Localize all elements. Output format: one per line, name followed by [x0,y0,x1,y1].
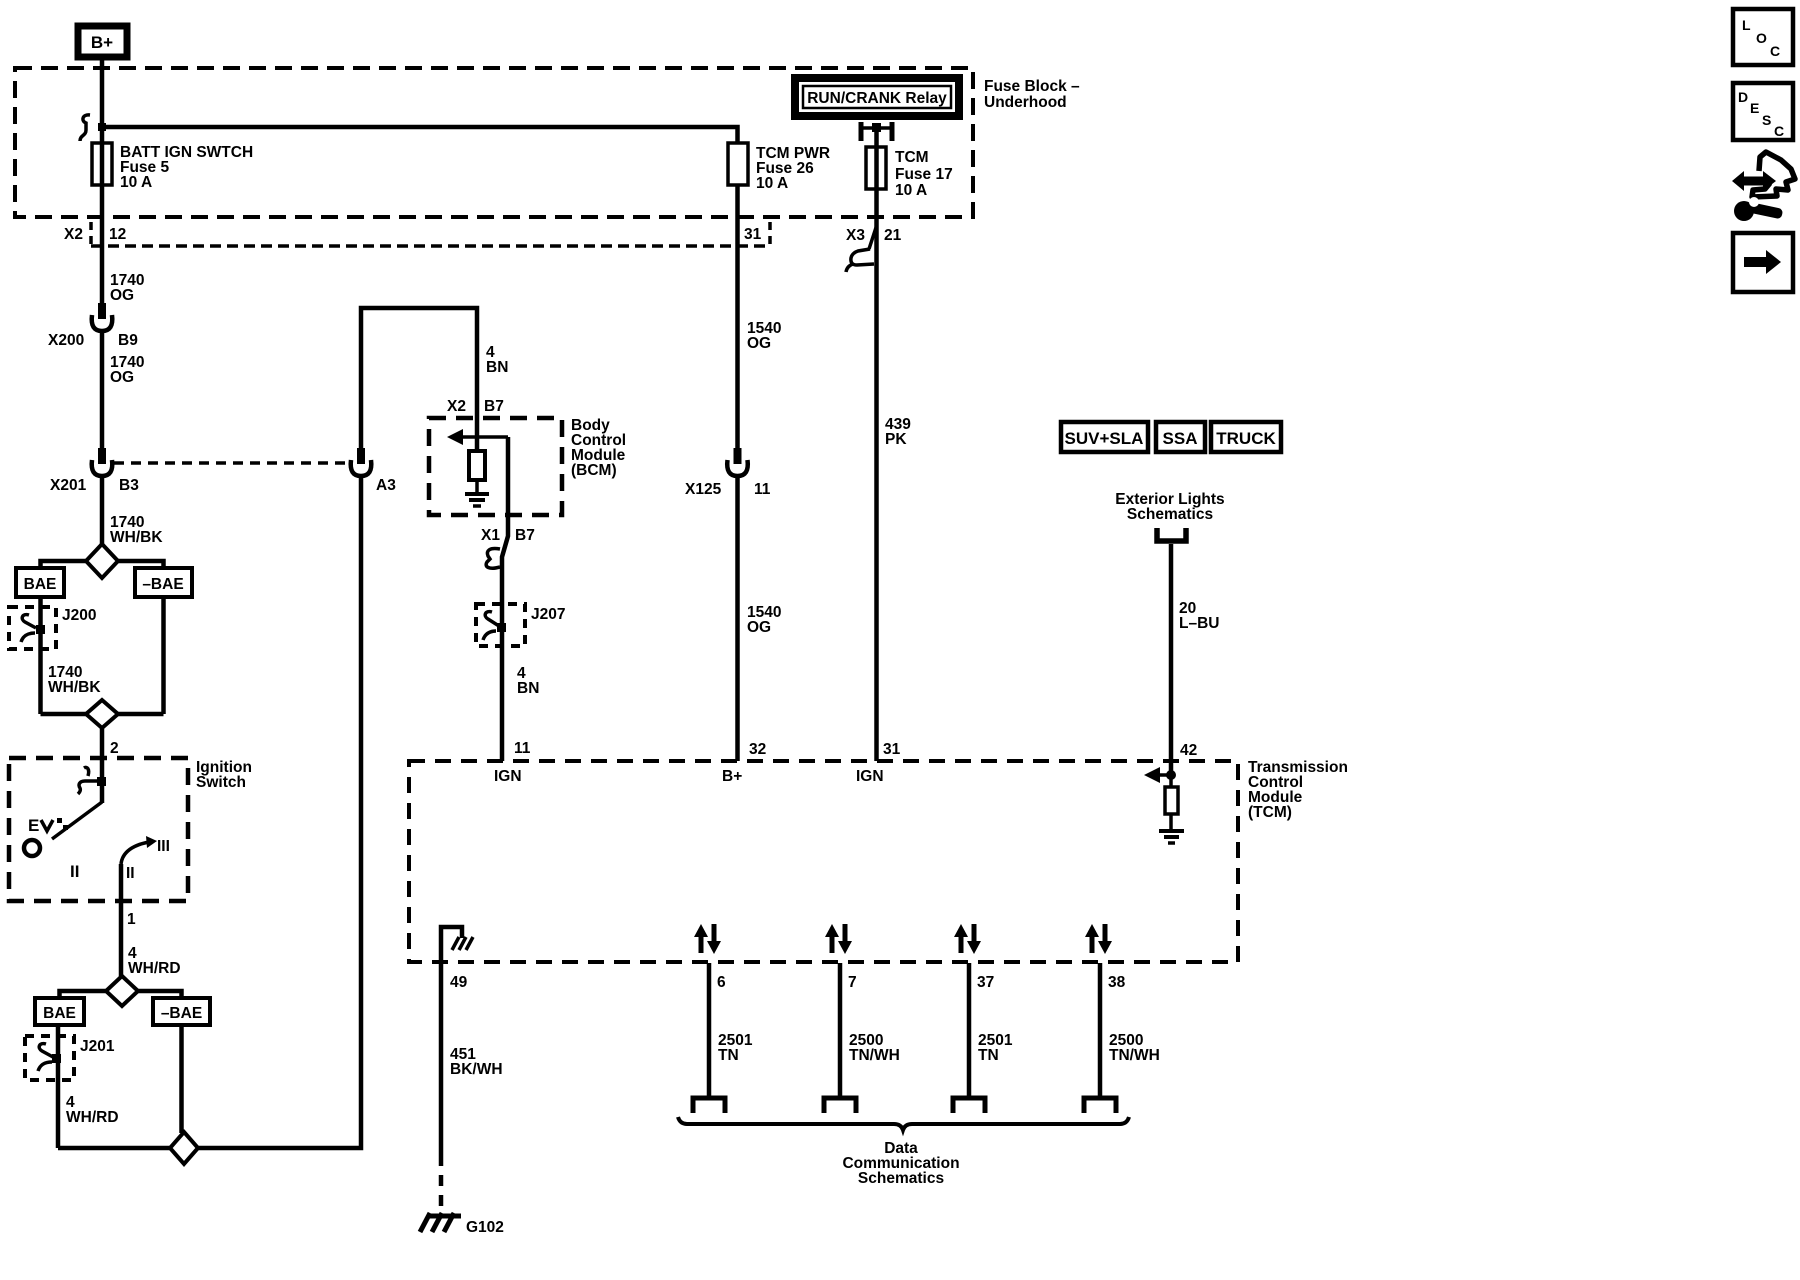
wire label 4 BN lower [517,665,539,697]
svg-text:11: 11 [754,481,771,498]
splice J201 symbol [38,1044,61,1071]
TCM pin 42 internal resistor [1165,775,1178,829]
svg-text:B9: B9 [118,332,138,349]
off-page connector to exterior lights [1157,528,1186,541]
wire S3 to -BAE lower [137,991,182,998]
connector X2 pin B7 labels [447,398,504,415]
wire switch pin 1 down to splice diamond 3 [119,864,124,977]
fuse block underhood dashed box [15,68,973,217]
clip symbol at switch pin 2 [78,767,106,794]
fuse F26 TCM PWR [728,143,830,192]
TCM pin 38 wire 2500 TN/WH [1100,963,1160,1096]
svg-text:Schematics: Schematics [858,1170,944,1187]
svg-text:12: 12 [109,226,126,243]
svg-text:BAE: BAE [43,1005,76,1022]
svg-text:11: 11 [514,740,531,757]
tag box TRUCK [1211,422,1281,452]
wire label 4 WH/RD [128,945,181,977]
clip symbol below X3 [846,249,874,272]
svg-text:WH/RD: WH/RD [66,1109,119,1126]
svg-text:B+: B+ [722,768,742,785]
svg-text:X201: X201 [50,477,87,494]
svg-text:49: 49 [450,974,468,991]
wire 451 BK/WH pin 49 to G102 [439,962,444,1155]
wire relay to Fuse 17 and down to TCM pin 31 [874,132,879,761]
BCM internal logic arrow [447,429,508,445]
switch position mark E [28,816,68,835]
splice J201 dashed box [25,1036,115,1080]
svg-text:42: 42 [1180,742,1197,759]
svg-text:C: C [1770,43,1780,59]
TCM pin 49 internal chassis ground [441,927,473,963]
svg-text:X125: X125 [685,481,722,498]
wire BAE lower down to bottom bus [56,1025,61,1148]
svg-text:(TCM): (TCM) [1248,804,1292,821]
-BAE box lower [153,998,210,1025]
RUN/CRANK Relay box [795,78,959,116]
in-line connector X125 pin 11 [685,448,771,498]
wire label 439 PK [885,416,911,448]
svg-text:B+: B+ [91,33,113,52]
svg-text:III: III [157,838,170,855]
TCM pin 42 internal arrow [1144,767,1176,783]
wire fuse block bus to TCM PWR fuse [102,127,738,143]
svg-text:TN: TN [718,1047,739,1064]
svg-text:OG: OG [110,369,134,386]
wire X125 to TCM pin 32 [735,476,740,761]
nav icon LOC [1733,9,1793,65]
wire 20 L-BU from exterior lights down to TCM pin 42 [1169,544,1174,775]
tag box SUV+SLA [1061,422,1148,452]
svg-text:Underhood: Underhood [984,94,1067,111]
label Data Communication Schematics [842,1140,959,1187]
svg-text:–BAE: –BAE [161,1005,202,1022]
wire label 451 BK/WH [450,1046,503,1078]
svg-text:B3: B3 [119,477,139,494]
wire BAE down through J200 to splice diamond 2 [38,597,43,714]
wire label 20 L-BU [1179,600,1219,632]
svg-text:L: L [1742,17,1751,33]
splice diamond S2 [86,700,118,728]
svg-text:D: D [1738,89,1748,105]
svg-text:31: 31 [744,226,762,243]
wire label 1740 OG lower [110,354,144,386]
svg-text:10 A: 10 A [756,175,788,192]
TCM internal ground [1159,831,1184,843]
BCM internal ground [465,494,489,506]
svg-text:OG: OG [110,287,134,304]
svg-text:II: II [70,862,79,881]
svg-text:C: C [1774,123,1784,139]
svg-text:J200: J200 [62,607,96,624]
wire X200 to X201 [100,331,105,450]
label Fuse Block - Underhood [984,78,1080,111]
svg-text:32: 32 [749,741,766,758]
wire A3 up over to BCM X2 B7 [361,308,477,450]
switch pivot contact [24,840,40,856]
svg-text:X2: X2 [447,398,466,415]
body control module dashed box [429,417,626,515]
switch blade wire [52,802,102,839]
connector X3 pin 21 on relay wire [846,226,902,249]
wire -BAE lower down to splice diamond 4 [179,1025,184,1133]
wire label 1740 OG upper [110,272,144,304]
transmission control module dashed box [409,759,1348,962]
TCM pin 6 wire 2501 TN [709,963,753,1096]
dashed wire to G102 [439,1155,444,1214]
TCM pin 32 labels [722,741,766,785]
rotate arrow II to III [121,836,157,864]
tag box SSA [1156,422,1205,452]
splice diamond S3 [106,976,138,1006]
in-line connector A3 [351,448,396,494]
TCM pin 7 wire 2500 TN/WH [840,963,900,1096]
pin 7 off-page connector [824,1098,856,1113]
splice diamond S1 [86,544,118,578]
svg-text:PK: PK [885,431,907,448]
fuse F5 BATT IGN SWTCH [92,143,253,191]
svg-text:SUV+SLA: SUV+SLA [1065,429,1144,448]
-BAE box upper [135,568,192,597]
svg-text:10 A: 10 A [895,182,927,199]
fuse F17 TCM [866,147,953,199]
wire -BAE down to splice diamond 2 [161,597,166,714]
TCM pin 7 data arrows [825,924,852,954]
svg-text:37: 37 [977,974,994,991]
svg-text:X2: X2 [64,226,83,243]
TCM pin 31 labels [856,741,901,785]
stub S2 left [41,712,88,717]
BCM wire pin B7 to resistor [475,418,480,452]
stub S2 right [117,712,164,717]
svg-text:TN/WH: TN/WH [849,1047,900,1064]
wire label 1740 WH/BK lower [48,664,101,696]
BAE box upper [16,568,64,597]
splice J207 symbol [483,612,506,640]
svg-text:–BAE: –BAE [142,576,183,593]
svg-text:G102: G102 [466,1219,504,1236]
svg-text:1: 1 [127,911,136,928]
splice J200 symbol [21,615,45,642]
svg-text:WH/BK: WH/BK [48,679,101,696]
pin 37 off-page connector [953,1098,985,1113]
svg-text:7: 7 [848,974,857,991]
pin 38 off-page connector [1084,1098,1116,1113]
ground G102 [420,1213,504,1236]
svg-text:6: 6 [717,974,726,991]
svg-text:BK/WH: BK/WH [450,1061,503,1078]
svg-text:31: 31 [883,741,901,758]
svg-text:X200: X200 [48,332,84,349]
clip symbol below X1 [486,548,500,568]
clip symbol at bus feed [80,115,90,141]
battery feed B+ box [78,26,127,57]
svg-text:E: E [1750,100,1759,116]
svg-text:21: 21 [884,227,902,244]
splice diamond S4 [170,1132,198,1164]
svg-text:BN: BN [517,680,539,697]
svg-text:E: E [28,816,39,835]
wire S2 to ignition switch pin 2 [100,728,105,803]
wire label 1740 WH/BK [110,514,163,546]
wire S3 to BAE lower [60,991,108,998]
svg-text:J201: J201 [80,1038,115,1055]
wire X201 to splice diamond 1 [100,476,105,546]
svg-text:TCM: TCM [895,149,929,166]
svg-text:Fuse 17: Fuse 17 [895,166,953,183]
svg-text:2: 2 [110,740,119,757]
data communication brace [678,1117,1129,1130]
wire S1 to -BAE [117,561,164,568]
wire Fuse 26 down to X125 [735,185,740,450]
svg-text:B7: B7 [484,398,504,415]
svg-text:L–BU: L–BU [1179,615,1219,632]
bottom bus wire left [58,1146,171,1151]
svg-text:OG: OG [747,619,771,636]
label Exterior Lights Schematics [1115,491,1224,523]
splice J200 dashed box [9,607,96,649]
wire label 4 WH/RD lower [66,1094,119,1126]
svg-text:X1: X1 [481,527,500,544]
nav icon next arrow [1733,233,1793,292]
svg-text:X3: X3 [846,227,865,244]
nav icon DESC [1733,83,1793,140]
in-line connector X201 pin B3 [50,448,139,494]
svg-text:WH/RD: WH/RD [128,960,181,977]
svg-text:IGN: IGN [856,768,884,785]
svg-text:Fuse Block –: Fuse Block – [984,78,1080,95]
svg-text:10 A: 10 A [120,174,152,191]
wire S1 to BAE [41,561,88,568]
TCM pin 37 data arrows [954,924,981,954]
wire B+ down through Fuse 5 to connector X2 [100,60,105,305]
junction node at Fuse 5 feed [98,123,106,131]
BCM internal wire to X1 B7 [502,437,508,761]
svg-text:B7: B7 [515,527,535,544]
svg-text:Schematics: Schematics [1127,506,1213,523]
svg-text:38: 38 [1108,974,1126,991]
svg-text:BAE: BAE [24,576,57,593]
svg-text:TRUCK: TRUCK [1216,429,1276,448]
svg-text:II: II [126,865,135,882]
svg-text:A3: A3 [376,477,396,494]
svg-text:TN: TN [978,1047,999,1064]
svg-text:O: O [1756,30,1767,46]
wire label 1540 OG lower [747,604,781,636]
svg-text:IGN: IGN [494,768,522,785]
BAE box lower [35,998,84,1025]
wire label 1540 OG upper [747,320,781,352]
svg-text:Switch: Switch [196,774,246,791]
svg-text:BN: BN [486,359,508,376]
BCM resistor to ground wire [475,480,479,492]
ignition switch dashed box [9,758,252,901]
dashed harness tie X201 to A3 [114,461,349,465]
svg-text:S: S [1762,112,1771,128]
svg-text:RUN/CRANK Relay: RUN/CRANK Relay [807,90,947,107]
connector X1 pin B7 labels [481,527,535,544]
BCM pull-down resistor [469,451,485,480]
bottom bus wire right up to A3 [197,476,361,1148]
TCM pin 38 data arrows [1085,924,1112,954]
TCM pin 6 data arrows [694,924,721,954]
splice J207 dashed box [476,604,565,646]
connector strip X2 pin 12 to pin 31 [64,222,770,246]
svg-text:SSA: SSA [1163,429,1198,448]
nav icon swap/tools [1732,152,1795,221]
svg-text:(BCM): (BCM) [571,462,617,479]
svg-text:WH/BK: WH/BK [110,529,163,546]
svg-text:TN/WH: TN/WH [1109,1047,1160,1064]
pin 6 off-page connector [693,1098,725,1113]
TCM pin 37 wire 2501 TN [969,963,1013,1096]
svg-text:OG: OG [747,335,771,352]
wire label 4 BN upper [486,344,508,376]
relay output pin socket [861,122,892,141]
svg-text:J207: J207 [531,606,565,623]
in-line connector X200 pin B9 [48,303,138,349]
